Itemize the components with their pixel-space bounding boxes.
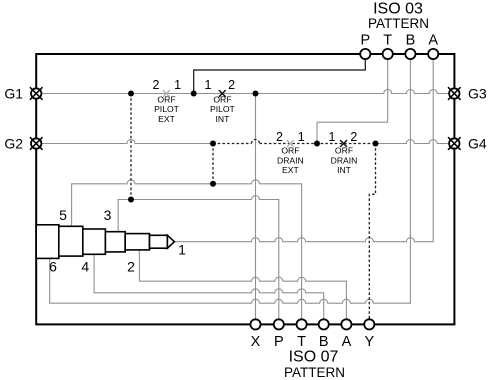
svg-text:G3: G3: [468, 86, 487, 102]
orifice ORF DRAIN INT symbol: [340, 140, 347, 147]
wire bottom port X to pilot line: [255, 94, 257, 319]
svg-text:1: 1: [174, 78, 181, 92]
wire drain line G4 right segment: [376, 140, 455, 144]
junction ext drop/port5 line: [210, 181, 216, 187]
svg-text:2: 2: [350, 130, 357, 144]
wire top port T to drain line: [317, 60, 388, 144]
svg-text:3: 3: [104, 207, 112, 223]
svg-text:ORF: ORF: [157, 94, 175, 104]
junction ext drop/port3 line: [128, 197, 134, 203]
junction pilot/X riser: [253, 91, 259, 97]
svg-text:2: 2: [153, 78, 160, 92]
port T top: [383, 49, 393, 59]
svg-text:X: X: [251, 334, 261, 350]
wire cavity port 5 to bottom port T: [72, 180, 302, 319]
port G3: [448, 87, 461, 100]
port A bottom: [341, 319, 351, 329]
svg-text:4: 4: [81, 258, 89, 274]
manifold body outline: [36, 54, 454, 324]
port B bottom: [319, 319, 329, 329]
cavity stepped plug: [36, 225, 174, 259]
junction drain/T feed: [314, 141, 320, 147]
wire dashed drain line middle segment: [213, 143, 252, 145]
wire pilot line G1-G3: [36, 90, 454, 94]
svg-text:6: 6: [49, 258, 57, 274]
svg-text:PATTERN: PATTERN: [368, 16, 429, 31]
svg-text:PILOT: PILOT: [154, 104, 180, 114]
orifice ORF PILOT EXT symbol: [163, 90, 170, 97]
junction pilot/ext drop: [128, 91, 134, 97]
junction drain/ext drop: [210, 141, 216, 147]
svg-text:A: A: [342, 334, 352, 350]
svg-text:PATTERN: PATTERN: [284, 365, 345, 380]
orifice ORF DRAIN EXT symbol: [287, 140, 294, 147]
svg-text:INT: INT: [337, 165, 352, 175]
svg-text:B: B: [406, 33, 416, 49]
junction pilot/P feed: [191, 91, 197, 97]
svg-text:T: T: [297, 334, 306, 350]
svg-text:EXT: EXT: [158, 114, 175, 124]
svg-text:ORF: ORF: [335, 146, 353, 156]
port P top: [360, 49, 370, 59]
svg-text:DRAIN: DRAIN: [331, 155, 358, 165]
wire cavity port 4 to bottom port B: [94, 254, 324, 318]
port A top: [428, 49, 438, 59]
port Y bottom: [364, 319, 374, 329]
svg-text:Y: Y: [364, 334, 374, 350]
orifice ORF PILOT INT symbol: [219, 90, 226, 97]
svg-text:ORF: ORF: [281, 146, 299, 156]
junction drain/Y drop: [373, 141, 379, 147]
port B top: [405, 49, 415, 59]
svg-text:1: 1: [205, 78, 212, 92]
svg-text:G4: G4: [468, 136, 487, 152]
svg-text:B: B: [319, 334, 329, 350]
svg-text:A: A: [428, 33, 438, 49]
wire dashed pilot ext drop to port 3 line: [130, 94, 132, 200]
svg-text:DRAIN: DRAIN: [277, 155, 304, 165]
svg-text:T: T: [383, 33, 392, 49]
wire cavity port 1 to top port A: [174, 60, 433, 242]
port X bottom: [250, 319, 260, 329]
port G1: [30, 87, 43, 100]
svg-text:1: 1: [298, 130, 305, 144]
wire drain line G2 left segment: [36, 140, 213, 144]
wire cavity port 2 to bottom port A: [139, 250, 346, 319]
svg-text:2: 2: [228, 78, 235, 92]
wire cavity port 3 to bottom port P: [118, 196, 279, 319]
port T bottom: [297, 319, 307, 329]
svg-text:PILOT: PILOT: [210, 104, 236, 114]
port P bottom: [274, 319, 284, 329]
svg-text:1: 1: [178, 242, 186, 258]
svg-text:ORF: ORF: [213, 94, 231, 104]
port G2: [30, 137, 43, 150]
wire dashed drain to bottom port Y: [369, 144, 375, 319]
svg-text:5: 5: [59, 207, 67, 223]
svg-text:2: 2: [276, 130, 283, 144]
svg-text:G2: G2: [4, 136, 23, 152]
svg-text:ISO 07: ISO 07: [289, 349, 339, 366]
port G4: [448, 137, 461, 150]
wire cavity port 6 to top port B: [50, 60, 411, 304]
svg-text:INT: INT: [215, 114, 230, 124]
svg-text:P: P: [360, 33, 370, 49]
svg-text:2: 2: [127, 258, 135, 274]
wire top port P to pilot line (int pilot): [194, 60, 366, 94]
wire dashed drain ext drop to port 5 line: [212, 144, 214, 184]
svg-text:EXT: EXT: [282, 165, 299, 175]
svg-text:1: 1: [329, 130, 336, 144]
svg-text:P: P: [274, 334, 284, 350]
svg-text:G1: G1: [4, 86, 23, 102]
